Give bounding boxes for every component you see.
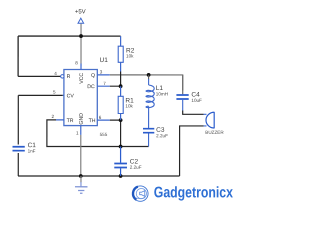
wire: R2-R1-C2 column bbox=[120, 71, 122, 146]
svg-text:CV: CV bbox=[67, 93, 75, 99]
node: TH junction bbox=[119, 118, 123, 122]
wire: TH wire bbox=[110, 119, 121, 121]
svg-text:3: 3 bbox=[100, 69, 103, 74]
wire: buzzer bottom lead to rail bbox=[180, 126, 204, 176]
wire: TR loop bbox=[47, 120, 149, 147]
svg-text:6: 6 bbox=[99, 115, 102, 120]
svg-text:U1: U1 bbox=[100, 57, 109, 64]
wire: left vertical through C1 bbox=[17, 95, 19, 176]
svg-text:BUZZER: BUZZER bbox=[205, 130, 224, 135]
pin 1 GND stub bbox=[80, 126, 82, 135]
pin 2 TR stub bbox=[56, 119, 64, 121]
inductor L1 bbox=[148, 75, 150, 80]
wire: Q output gray line bbox=[110, 75, 183, 91]
svg-text:2.2uF: 2.2uF bbox=[156, 133, 168, 138]
svg-text:VCC: VCC bbox=[79, 73, 85, 84]
node: +5V junction bbox=[79, 34, 83, 38]
capacitor C2 bbox=[120, 146, 122, 162]
svg-text:DC: DC bbox=[87, 84, 95, 90]
svg-text:1nF: 1nF bbox=[28, 149, 36, 154]
svg-text:2: 2 bbox=[51, 114, 54, 119]
wire: C4 to buzzer top lead bbox=[183, 111, 204, 115]
resistor R2 bbox=[120, 36, 122, 71]
svg-text:5: 5 bbox=[53, 89, 56, 94]
wire: top +5V rail bbox=[18, 35, 120, 37]
ground bbox=[80, 176, 82, 183]
node: DC junction bbox=[119, 84, 123, 88]
pin 4 R bubble bbox=[61, 75, 64, 78]
capacitor C3 bbox=[143, 129, 154, 133]
svg-text:2.2uF: 2.2uF bbox=[130, 165, 142, 170]
wire: DC wire bbox=[110, 85, 121, 87]
pin 8 VCC stub bbox=[80, 63, 82, 69]
wire: pin4 reset wire bbox=[18, 75, 61, 77]
svg-text:Gadgetronicx: Gadgetronicx bbox=[154, 184, 234, 201]
wire: pin1 GND gray drop bbox=[80, 135, 82, 176]
svg-text:7: 7 bbox=[103, 81, 106, 86]
logo Gadgetronicx icon bbox=[133, 186, 148, 201]
buzzer BZ1 bbox=[203, 114, 206, 126]
node: L1 top junction bbox=[147, 73, 151, 77]
svg-text:555: 555 bbox=[100, 132, 108, 137]
op-amp U1 555 timer IC body bbox=[64, 69, 97, 125]
capacitor C1 bbox=[12, 147, 24, 151]
svg-text:TR: TR bbox=[67, 118, 74, 124]
svg-text:8: 8 bbox=[75, 60, 78, 65]
node: C2 bottom junction bbox=[119, 174, 123, 178]
svg-text:TH: TH bbox=[89, 118, 96, 124]
svg-text:4: 4 bbox=[54, 71, 57, 76]
pin 7 DC stub bbox=[97, 85, 109, 87]
svg-text:1: 1 bbox=[76, 130, 79, 135]
wire: left vertical rail to pin4 bbox=[17, 36, 19, 76]
wire: +5V gray stub bbox=[80, 24, 82, 36]
svg-text:R: R bbox=[67, 74, 71, 80]
resistor R1 bbox=[120, 86, 122, 120]
svg-text:10uF: 10uF bbox=[191, 98, 202, 103]
wire: pin8 VCC gray drop bbox=[80, 36, 82, 63]
pin 6 TH stub bbox=[97, 119, 109, 121]
wire: CV wire bbox=[18, 94, 63, 96]
svg-text:10mH: 10mH bbox=[156, 92, 168, 97]
svg-text:+5V: +5V bbox=[75, 9, 86, 15]
svg-text:10k: 10k bbox=[126, 54, 134, 59]
svg-text:GND: GND bbox=[79, 113, 85, 125]
capacitor C4 bbox=[182, 75, 184, 94]
node: ground junction bbox=[79, 174, 83, 178]
power +5V terminal bbox=[78, 18, 84, 23]
pin 5 CV stub bbox=[63, 94, 64, 96]
svg-text:10k: 10k bbox=[125, 104, 133, 109]
svg-text:Q: Q bbox=[91, 73, 95, 79]
wire: bottom ground rail bbox=[18, 175, 180, 177]
node: C2 top junction bbox=[119, 145, 123, 149]
pin 3 Q stub bbox=[97, 74, 109, 76]
